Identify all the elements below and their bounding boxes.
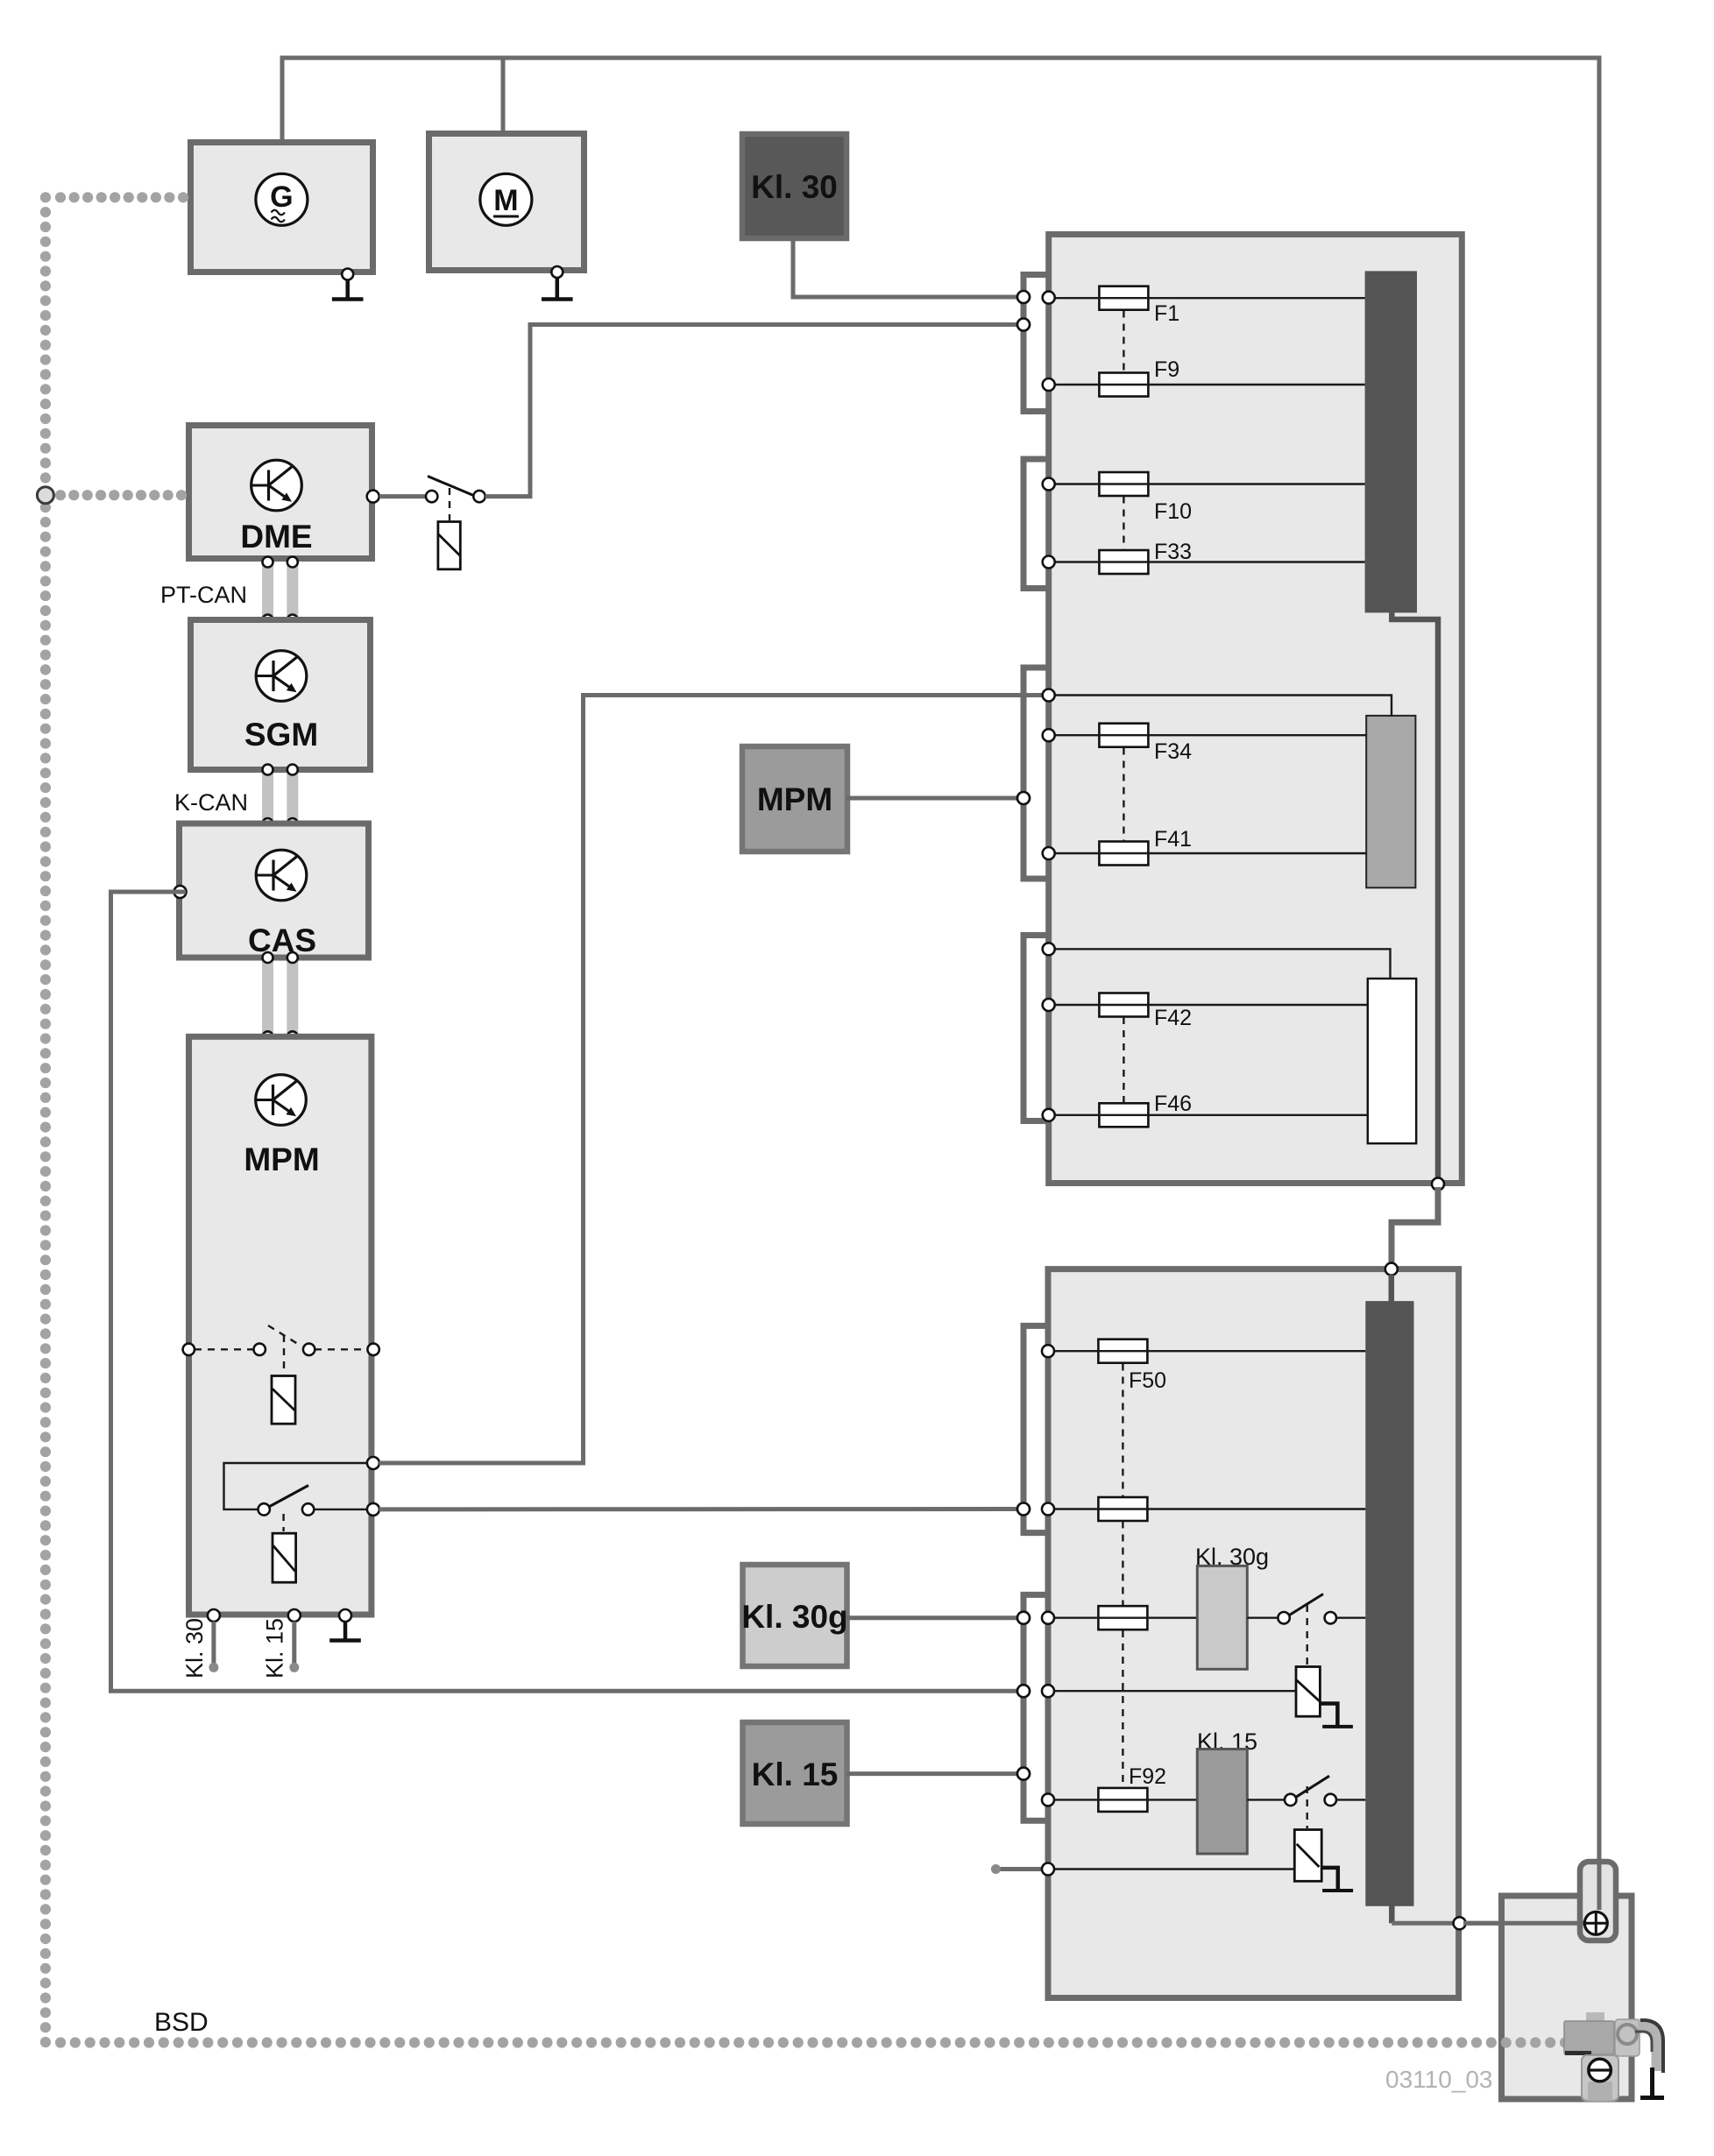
wire: MPM box to F34 group bracket [846,796,1020,801]
wire: input to rear busbar [1389,1275,1395,1303]
svg-text:Kl. 15: Kl. 15 [262,1618,288,1679]
MPM relay coil 2 [273,1533,296,1582]
node: coil feed junction (on bracket) [1017,1685,1030,1697]
node: Kl.30 wire junction on bracket [1017,291,1030,303]
BSD bus dotted line (vertical left side) [40,192,51,2047]
twin bus between CAS and MPM [262,958,298,1037]
fuse F33 [1099,550,1148,574]
bracket F34/F41 group [1023,668,1048,879]
svg-text:Kl. 30: Kl. 30 [751,169,838,205]
MPM micro power module box [189,1036,372,1615]
node: upper box output to rear box [1432,1178,1444,1191]
battery box [1502,1896,1633,2099]
MPM relay contact 2 feed loop [224,1463,368,1509]
rear busbar tail to battery feed [1389,1904,1395,1923]
svg-text:F41: F41 [1154,827,1192,852]
feed line to busbar 3 [1049,949,1391,979]
dashed actuator link of S1 [449,488,450,520]
node: coil feed junction on bracket [1017,1685,1030,1697]
wire: S1 output to fuse box F1/F9 bracket [485,325,1020,497]
ground at battery negative [1640,2068,1664,2098]
fuse F92 [1098,1788,1147,1812]
pin: MPM Kl.30 terminal [208,1609,220,1622]
node: Kl.30g junction (on bracket) [1017,1612,1030,1624]
svg-text:Kl. 30g: Kl. 30g [741,1599,847,1635]
winding 1 ground lead [1320,1704,1337,1726]
svg-text:Kl. 15: Kl. 15 [752,1757,839,1792]
row line F46 [1049,1114,1368,1116]
fuse F50 [1098,1340,1147,1363]
svg-text:MPM: MPM [757,781,832,817]
dashed link F42-F46 [1123,1017,1124,1103]
fuse F9 [1099,373,1148,397]
fuse F34 [1099,724,1148,747]
svg-text:F33: F33 [1154,540,1192,564]
dashed actuator link Kl.15 relay [1306,1786,1307,1828]
node: DME supply junction (on bracket) [1017,319,1030,331]
node: MPM output junction (on bracket) [1017,1503,1030,1516]
CAS car access system box [180,824,369,958]
wire: main Kl.30 supply loop (generator/battery ring, top and right side) [282,58,1599,1869]
transistor symbol in CAS [256,850,307,901]
transistor symbol in DME [251,460,302,511]
row line Kl.30g relay [1048,1616,1197,1618]
wire: Kl. 30g to relay fuse row [846,1615,1020,1620]
pin: MPM ground terminal [339,1609,351,1622]
dashed actuator link of MPM relay 2 [282,1514,284,1531]
row line F10 [1049,483,1365,484]
fuse F1 [1099,286,1148,310]
node: rear box input [1385,1263,1398,1276]
pins on upper fuse box edge [1043,292,1055,304]
motor symbol M [480,173,532,225]
wire: rear box to battery positive [1392,1921,1596,1926]
svg-text:SGM: SGM [244,717,318,753]
relay Kl. 30g coil box [1197,1566,1247,1669]
SGM gateway module box [191,620,371,770]
row line to winding 1 [1048,1690,1296,1692]
relay Kl. 15 contact [1247,1799,1285,1800]
row line F34 [1049,734,1367,736]
DME control unit box [189,426,372,559]
bracket F42/F46 group [1023,936,1048,1121]
node: Kl.15 junction on bracket [1017,1768,1030,1780]
fuse F46 [1099,1103,1148,1127]
row line unlabeled fuse [1048,1508,1365,1509]
svg-text:M: M [493,184,518,217]
pin: MPM relay 2 output [367,1503,379,1516]
winding 2 ground lead [1321,1868,1338,1889]
generator symbol G [256,173,308,225]
row line F1 [1049,297,1365,299]
relay Kl. 15 coil box [1197,1750,1247,1855]
front power distribution box (upper fuse box) [1049,235,1463,1184]
bracket F1/F9 group [1023,275,1048,412]
MPM relay coil 1 [272,1376,295,1424]
svg-text:DME: DME [240,519,312,555]
busbar 1 tail down to box output [1392,611,1438,1184]
node: MPM feed junction on bracket [1017,792,1030,804]
stub wire Kl.15 under MPM [292,1622,296,1664]
wire: supply loop into battery positive [1597,1857,1602,1910]
fuse F41 [1099,842,1148,866]
svg-text:F9: F9 [1154,357,1179,382]
row line F92 [1048,1799,1197,1800]
svg-text:F46: F46 [1154,1092,1192,1116]
row line F42 [1049,1004,1368,1006]
row line F50 [1048,1350,1365,1352]
node: Kl.30g junction on bracket [1017,1612,1030,1624]
battery positive terminal post [1580,1862,1616,1940]
node: BSD junction at DME branch [37,487,53,504]
IBS battery sensor clamp illustration [1564,2012,1663,2101]
bracket Kl.30g/F92 group [1023,1594,1048,1820]
feed line to busbar 2 [1049,696,1392,717]
terminal Kl. 30 box [742,134,846,238]
node: Kl.15 junction (on bracket) [1017,1768,1030,1780]
transistor symbol in SGM [256,651,307,702]
wire: starter feed branch to motor [501,58,506,133]
svg-text:BSD: BSD [154,2008,209,2037]
svg-text:MPM: MPM [244,1142,319,1177]
svg-text:F34: F34 [1154,739,1192,764]
ground at generator [342,269,353,280]
pins on rear fuse box edge [1042,1345,1054,1357]
svg-text:03110_03: 03110_03 [1385,2066,1493,2093]
busbar 2 (grey) for F34/F41 [1366,716,1415,887]
K-CAN twin bus between SGM and CAS [262,769,298,824]
MPM supply terminal box (dark) [742,746,847,852]
MPM relay contact 1 (dashed, de-energized) [195,1325,367,1372]
svg-text:G: G [270,180,293,214]
stub wire Kl.30 under MPM [211,1622,216,1664]
svg-text:F1: F1 [1154,301,1179,326]
PT-CAN twin bus between DME and SGM [262,562,298,620]
stub terminal for winding 2 row [1000,1867,1043,1871]
svg-text:F50: F50 [1129,1368,1166,1393]
BSD dotted line to DME [55,490,187,500]
BSD dotted line (bottom run to battery sensor) [55,2037,1570,2047]
wire: DME to relay contact [379,494,426,498]
node: MPM feed junction (on bracket) [1017,792,1030,804]
dashed link F10-F33 [1123,497,1124,550]
wire: MPM relay 2 feed from F34 group rail [379,696,1044,1464]
bracket F10/F33 group [1023,459,1048,589]
svg-text:PT-CAN: PT-CAN [160,582,247,608]
pin: MPM relay 2 feed [367,1457,379,1469]
node: battery feed on rear box edge [1454,1917,1466,1929]
relay coil symbol under S1 [438,522,460,569]
terminal Kl. 15 box [743,1722,847,1824]
node: DME supply junction on bracket [1017,319,1030,331]
pin: DME output [367,491,379,503]
starter motor M box [429,134,584,271]
fuse F10 [1099,472,1148,496]
wire: Kl. 15 to F92 row bracket [846,1771,1020,1776]
battery positive symbol [1584,1912,1607,1934]
wire: rear box feed into battery positive terminal [1463,1921,1584,1926]
svg-text:F42: F42 [1154,1006,1192,1030]
row line F9 [1049,384,1365,385]
wire: Kl. 30 to fuse F1 group [793,241,1020,297]
dashed link F1-F9 [1123,311,1124,372]
dashed link F50 chain [1122,1364,1123,1497]
transistor symbol in MPM [256,1075,307,1126]
bracket F50 group [1023,1325,1048,1532]
svg-text:F10: F10 [1154,499,1192,524]
generator G box [191,143,373,272]
busbar 1 (dark) for F1-F33 [1365,271,1417,612]
wire: CAS feed down to relay coil row in rear fuse box [111,892,1021,1691]
terminal Kl. 30g box [743,1565,847,1666]
ground at starter motor [551,266,563,278]
row line F41 [1049,852,1367,854]
dashed actuator link Kl.30g relay [1306,1605,1307,1665]
pin: MPM Kl.15 terminal [288,1609,301,1622]
svg-text:K-CAN: K-CAN [174,789,248,816]
pin: CAS supply input [174,886,187,898]
row line F33 [1049,561,1365,562]
node: MPM output junction on bracket [1017,1503,1030,1516]
ground at MPM [329,1622,361,1641]
rear busbar (dark) [1365,1301,1413,1906]
relay winding symbol 1 [1296,1667,1320,1717]
MPM relay contact 2 switch [259,1486,368,1516]
svg-text:CAS: CAS [248,922,316,958]
fuse for Kl.30g relay [1098,1606,1147,1629]
svg-text:F92: F92 [1129,1764,1166,1789]
rear power distribution box (lower fuse box) [1048,1269,1459,1998]
relay Kl. 30g contact [1247,1616,1278,1618]
node: Kl.30 junction (on bracket) [1017,291,1030,303]
dashed link F34-F41 [1123,748,1124,842]
fuse F42 [1099,993,1148,1017]
BSD dotted line to generator [55,192,188,202]
fuse (unlabeled, F50 group) [1098,1497,1147,1521]
svg-text:Kl. 30: Kl. 30 [181,1618,208,1679]
relay winding symbol 2 [1294,1830,1321,1882]
wire: upper fuse box to rear fuse box [1392,1187,1438,1266]
battery negative symbol [1589,2059,1611,2082]
relay contact switch S1 (DME controlled) [426,477,485,503]
row line to winding 2 [1048,1868,1294,1870]
wire: MPM relay 2 output to F50 group bracket [379,1507,1021,1511]
busbar 3 (white) for F42/F46 [1368,979,1416,1143]
